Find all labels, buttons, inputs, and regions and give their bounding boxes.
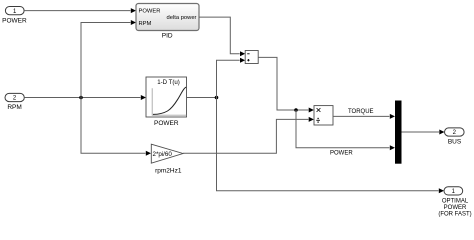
wire lookup out [187,97,217,99]
wire RPM to lookup [24,95,146,100]
svg-text:PID: PID [162,33,173,40]
outport 2 BUS [445,128,465,145]
wire branch up to sum plus [217,58,246,98]
svg-text:RPM: RPM [139,21,152,27]
svg-text:(FOR FAST): (FOR FAST) [438,211,471,217]
wire product out to mux TORQUE [333,114,395,119]
svg-text:OPTIMAL: OPTIMAL [442,198,469,204]
wire RPM branch up to PID RPM [81,20,136,98]
lookup table block POWER [146,77,187,117]
wire branch down to mux POWER [296,110,395,150]
wire branch down to outport 1 [217,98,445,194]
junction sum out branch [294,108,298,112]
junction RPM branch [79,96,83,100]
inport 1 POWER [2,7,27,25]
svg-text:POWER: POWER [139,8,161,14]
wire POWER to PID [24,8,136,13]
wire RPM branch down to gain [81,98,151,156]
product block [314,106,333,125]
gain block rpm2Hz1 [151,144,183,163]
wire gain out to product divide [183,117,314,153]
wire sum out to product [258,57,314,112]
svg-text:RPM: RPM [7,104,21,111]
svg-text:TORQUE: TORQUE [348,109,374,115]
svg-text:POWER: POWER [154,120,179,127]
outport 1 OPTIMAL POWER [438,187,471,218]
svg-text:POWER: POWER [330,151,353,157]
wire PID out to sum [199,17,245,56]
svg-text:2*pi/60: 2*pi/60 [153,151,173,158]
PID subsystem block [136,4,199,31]
svg-text:POWER: POWER [444,205,467,211]
svg-text:rpm2Hz1: rpm2Hz1 [155,167,182,174]
svg-text:POWER: POWER [2,17,27,24]
wire mux out to BUS [402,130,445,135]
svg-text:BUS: BUS [448,138,462,145]
mux block [395,101,402,164]
inport 2 RPM [5,93,24,111]
sum block [245,51,258,64]
junction lookup out [215,96,219,100]
svg-text:delta power: delta power [167,15,197,21]
svg-text:1-D T(u): 1-D T(u) [157,79,180,86]
